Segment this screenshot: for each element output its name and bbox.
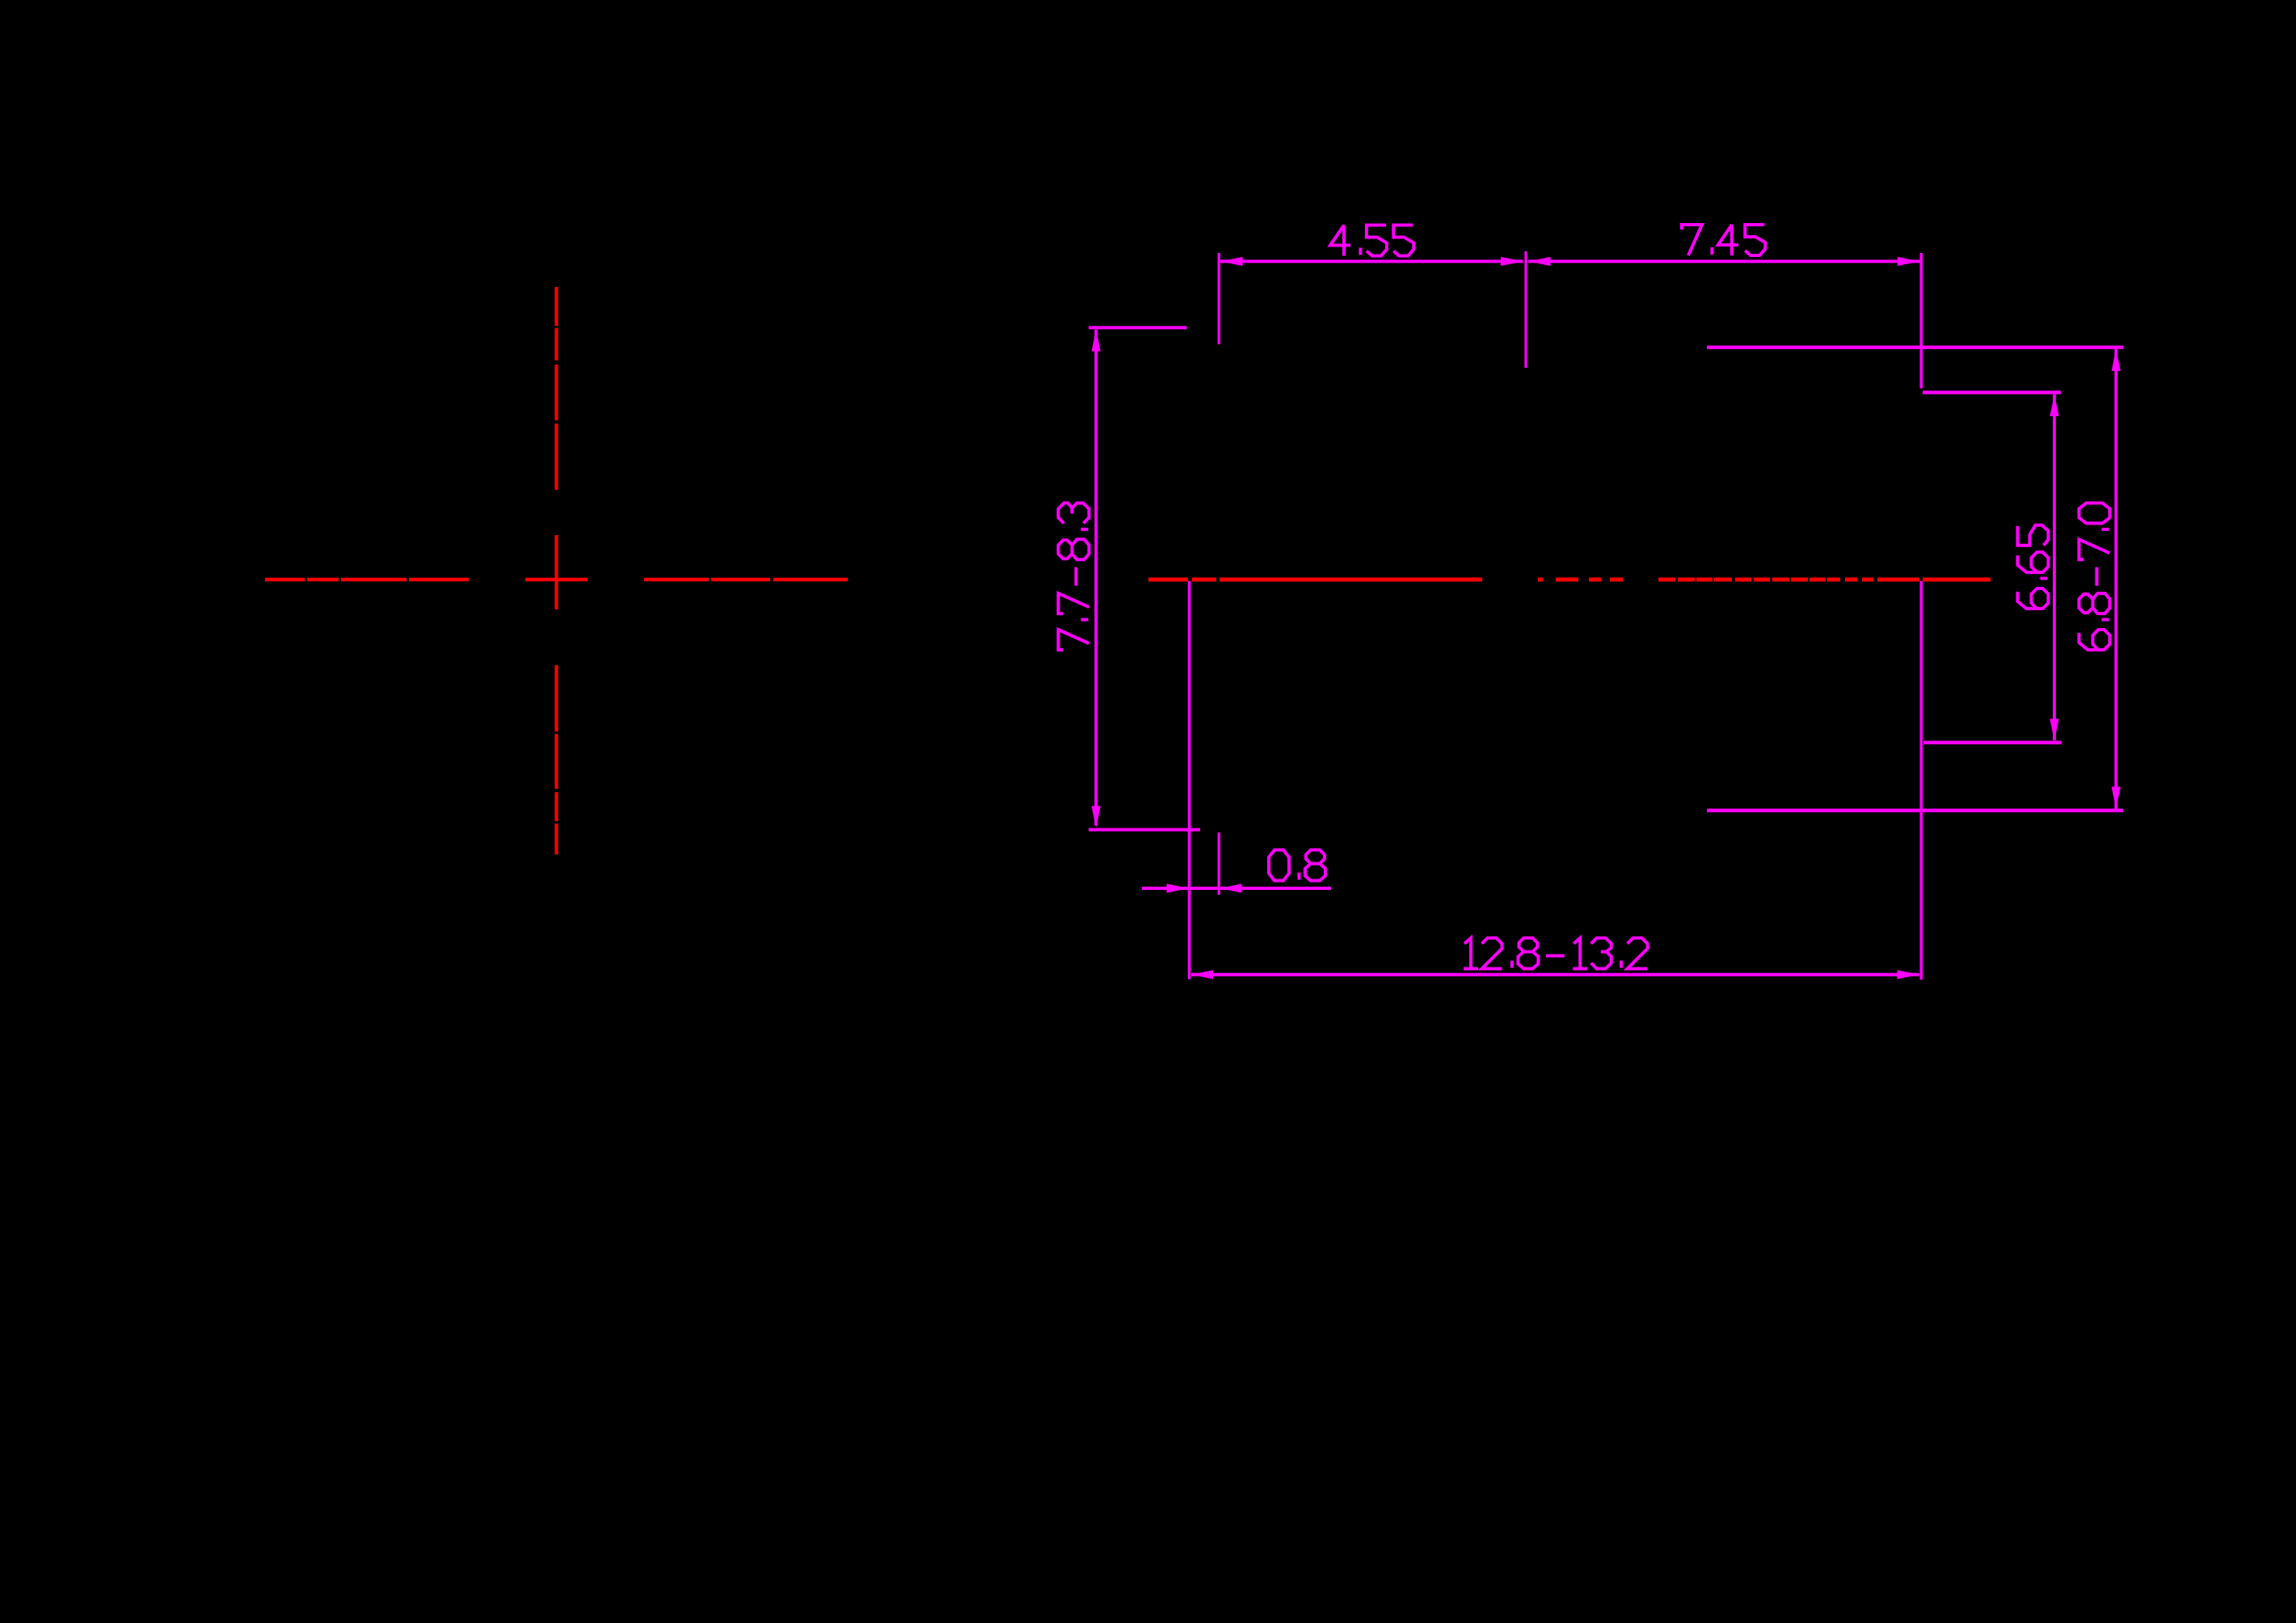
extension line right of dim 12.8-13.2 xyxy=(1920,581,1923,980)
extension line top of dim 6.8-7.0 xyxy=(1707,346,2123,349)
arrow left of dim 0.8 (outside, pointing right) xyxy=(1167,883,1189,892)
extension line between dims 4.55 and 7.45 xyxy=(1524,251,1527,368)
text 4.55 xyxy=(1330,226,1413,256)
extension line left of dim 12.8-13.2 xyxy=(1188,581,1191,980)
arrow top of dim 6.65 xyxy=(2050,394,2058,416)
extension line top of dim 6.65 xyxy=(1923,390,2061,394)
extension line right of dim 0.8 xyxy=(1218,833,1220,895)
extension line bottom of dim 7.7-8.3 xyxy=(1089,828,1200,832)
dimension line 4.55 xyxy=(1220,259,1523,263)
arrow right of dim 4.55 xyxy=(1501,257,1523,266)
text 7.45 xyxy=(1682,225,1765,255)
dimension line 0.8 xyxy=(1142,887,1331,890)
center mark vertical line (red, left view) xyxy=(554,287,558,854)
arrow left of dim 4.55 xyxy=(1221,257,1243,266)
extension line right of dim 7.45 xyxy=(1920,253,1923,389)
arrow right of dim 7.45 xyxy=(1898,257,1919,266)
center mark horizontal line (red, left view) xyxy=(265,578,848,582)
text 0.8 xyxy=(1269,850,1325,881)
dimension line 7.45 xyxy=(1528,259,1920,263)
text 6.65 (rotated) xyxy=(2018,525,2049,609)
extension line bottom of dim 6.65 xyxy=(1923,741,2062,744)
text 12.8-13.2 xyxy=(1464,938,1648,969)
arrow bottom of dim 6.8-7.0 xyxy=(2112,786,2121,808)
center line (red, right view) xyxy=(1148,578,1991,582)
arrow top of dim 6.8-7.0 xyxy=(2112,349,2121,371)
dimension line 6.8-7.0 xyxy=(2114,349,2117,809)
arrow left of dim 7.45 xyxy=(1529,257,1551,266)
arrow bottom of dim 7.7-8.3 xyxy=(1092,806,1101,828)
arrow bottom of dim 6.65 xyxy=(2050,719,2058,740)
dimension line 6.65 xyxy=(2053,394,2056,740)
arrow right of dim 12.8-13.2 xyxy=(1898,970,1919,979)
text 6.8-7.0 (rotated) xyxy=(2079,503,2110,650)
arrow right of dim 0.8 (outside, pointing left) xyxy=(1220,883,1242,892)
extension line left of dim 4.55 xyxy=(1218,253,1220,344)
arrow left of dim 12.8-13.2 xyxy=(1191,970,1213,979)
arrow top of dim 7.7-8.3 xyxy=(1092,330,1101,352)
extension line top of dim 7.7-8.3 xyxy=(1089,326,1187,329)
dimension line 12.8-13.2 xyxy=(1191,973,1919,976)
extension line bottom of dim 6.8-7.0 xyxy=(1707,809,2123,812)
dimension line 7.7-8.3 xyxy=(1094,330,1097,826)
text 7.7-8.3 (rotated) xyxy=(1059,503,1089,650)
